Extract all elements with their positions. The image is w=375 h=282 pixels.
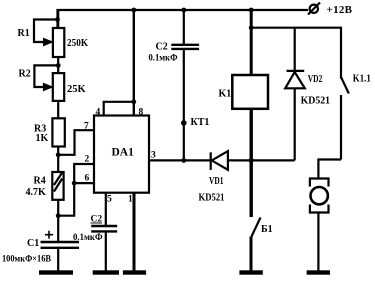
diode VD1: [210, 152, 212, 170]
wire R1-R2-R3-R4-C1 chain: [57, 10, 59, 242]
wire VD2 anode down: [294, 88, 296, 160]
resistor R2 (potentiometer): [53, 73, 64, 101]
capacitor C2 lower: [91, 225, 117, 227]
button B1: [252, 218, 261, 237]
svg-text:250K: 250K: [67, 38, 88, 49]
svg-text:6: 6: [85, 174, 90, 184]
wire bell to ground: [317, 213, 319, 271]
node KT1 test point: [181, 120, 187, 126]
+12V terminal: [310, 5, 318, 13]
node rail-K1: [249, 8, 254, 13]
resistor R1 (potentiometer): [53, 28, 64, 57]
svg-text:C2: C2: [156, 42, 168, 53]
ground under B1: [239, 270, 262, 274]
svg-text:100мкФ×16В: 100мкФ×16В: [2, 255, 52, 265]
node R2 wiper junction: [56, 63, 61, 68]
resistor R3: [52, 118, 64, 146]
resistor R4 (trimmer): [52, 172, 63, 200]
svg-text:KD521: KD521: [301, 96, 331, 107]
svg-text:Б1: Б1: [261, 224, 273, 235]
wire pin2 pin6 to R4-C1 junction: [74, 164, 94, 183]
node R3-R4 junction: [56, 152, 61, 157]
node rail-pin8: [131, 8, 136, 13]
capacitor C2 top: [183, 10, 185, 45]
svg-text:4: 4: [96, 108, 101, 118]
wire C2 to pin3 net: [183, 49, 185, 160]
wire branch to VD2 and K1.1: [251, 28, 341, 79]
node R4-C1 junction: [56, 213, 61, 218]
svg-text:1K: 1K: [36, 133, 49, 144]
wire K1.1 to bell: [318, 160, 341, 179]
wire R2 wiper: [34, 65, 58, 87]
diode VD2: [294, 28, 296, 71]
wire pin8 to rail: [133, 10, 135, 116]
contact K1.1: [341, 77, 349, 94]
svg-text:+12В: +12В: [327, 4, 353, 16]
bell HA1: [310, 179, 329, 187]
svg-text:R1: R1: [18, 28, 30, 39]
svg-text:КТ1: КТ1: [191, 117, 210, 128]
wire pin5 lead: [105, 193, 107, 226]
svg-text:25K: 25K: [67, 84, 87, 95]
svg-text:C1: C1: [27, 238, 39, 249]
ground under C1: [39, 270, 73, 274]
svg-text:C2: C2: [91, 215, 103, 225]
node pin6 junction: [72, 181, 77, 186]
svg-text:R2: R2: [19, 69, 31, 80]
svg-text:1: 1: [128, 195, 133, 205]
svg-text:VD2: VD2: [308, 74, 323, 85]
node K1-B1 junction: [249, 158, 254, 163]
svg-text:0.1мкФ: 0.1мкФ: [73, 233, 103, 243]
svg-text:2: 2: [85, 155, 90, 165]
capacitor C1 electrolytic: [41, 241, 80, 243]
svg-text:K1: K1: [219, 89, 232, 100]
svg-text:KD521: KD521: [199, 193, 225, 204]
svg-text:5: 5: [107, 195, 112, 205]
node pin3 junction: [181, 158, 186, 163]
wire +12V top rail: [58, 10, 309, 28]
node pin8 bridge: [131, 99, 136, 104]
wire C1 to ground: [57, 248, 59, 271]
svg-text:DA1: DA1: [112, 147, 135, 159]
wire R3 junction to pin 7: [58, 130, 94, 155]
ground under bell: [307, 270, 330, 274]
svg-text:0.1мкФ: 0.1мкФ: [149, 54, 178, 64]
op-amp U1 IC DA1 (555 timer): [94, 116, 149, 193]
node C2 rail: [181, 8, 186, 13]
svg-text:7: 7: [84, 122, 89, 132]
node R1 wiper junction: [55, 17, 60, 22]
svg-text:K1.1: K1.1: [353, 74, 371, 85]
ground under pin1: [123, 270, 146, 274]
wire pin1 lead: [133, 193, 136, 271]
wire R1 wiper to top: [34, 20, 58, 43]
svg-text:R4: R4: [34, 176, 46, 187]
svg-text:4.7K: 4.7K: [26, 187, 47, 198]
wire pin3 output: [149, 159, 211, 161]
svg-text:VD1: VD1: [209, 176, 224, 187]
relay K1 coil: [232, 75, 268, 109]
ground under pin5: [93, 270, 119, 274]
svg-text:3: 3: [151, 151, 156, 161]
wire rail to K1 coil: [250, 10, 253, 75]
wire pin4-pin8 bridge: [104, 102, 134, 116]
wire VD1 to K1 junction: [228, 159, 295, 161]
svg-text:8: 8: [139, 108, 144, 118]
wire K1 bottom lead: [249, 109, 252, 217]
node VD2-K1.1 branch: [249, 25, 254, 30]
